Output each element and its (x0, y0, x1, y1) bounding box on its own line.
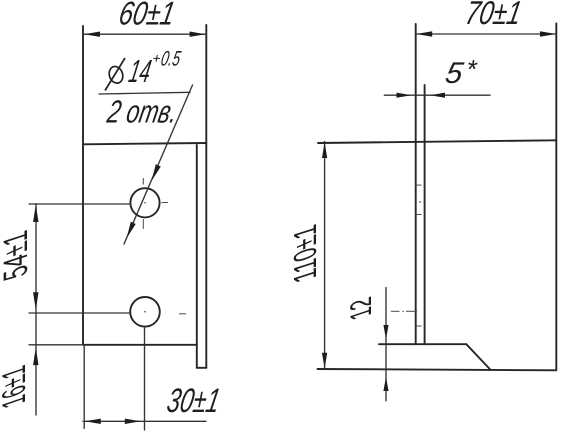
centerline dash-dot lower hole side view (391, 310, 400, 312)
side view wall right edge (424, 85, 426, 344)
dim line 110 (324, 142, 326, 370)
bend line (front view) (83, 143, 206, 144)
svg-text:110±1: 110±1 (288, 219, 323, 290)
leader shelf (99, 92, 190, 94)
extension plate left edge down (83, 345, 85, 429)
hidden hole tick upper-bottom on wall (415, 214, 422, 216)
centerline dash above upper hole (142, 178, 144, 185)
plate right edge (front view) (205, 25, 207, 368)
svg-text:60±1: 60±1 (116, 0, 178, 32)
hole center dot upper (144, 202, 146, 204)
svg-text:30±1: 30±1 (164, 382, 223, 420)
arrow 12 bottom (383, 377, 388, 391)
svg-text:12: 12 (344, 291, 377, 326)
arrow 70 right (540, 31, 556, 36)
dim line 54/16 vertical (35, 204, 37, 415)
arrow 16 bottom (33, 347, 38, 365)
extension of plate bottom to left (29, 344, 83, 346)
arrow 110 top (322, 142, 327, 158)
dim line 12 (385, 288, 387, 401)
leader line (124, 85, 193, 244)
arrow 60 right (190, 32, 206, 37)
arrow 5 right (430, 93, 445, 98)
svg-text:16±1: 16±1 (0, 360, 33, 415)
extension line lower hole center (29, 312, 130, 314)
svg-text:54±1: 54±1 (0, 225, 35, 288)
dim line 60 (83, 33, 206, 35)
diameter symbol (105, 58, 125, 91)
centerline dot upper hole side view (419, 201, 421, 203)
side view right edge (555, 24, 557, 370)
centerline dash right of upper hole (162, 202, 169, 204)
side view chamfer (466, 344, 490, 370)
arrow 54 bottom (33, 292, 38, 310)
arrow 54 top (33, 204, 38, 222)
arrow 30 left (85, 419, 101, 424)
flange inner edge (front view) (196, 145, 198, 368)
leader arrowhead lower (127, 222, 136, 239)
arrow 110 bottom (322, 353, 327, 369)
svg-text:2 отв.: 2 отв. (104, 94, 181, 130)
svg-text:14: 14 (126, 53, 154, 89)
hole center dot lower (144, 311, 146, 313)
plate bottom edge (front view) (83, 344, 197, 346)
centerline dash right of lower hole (179, 313, 186, 315)
svg-text:0.5: 0.5 (159, 48, 183, 71)
arrow 5 left (397, 93, 412, 98)
side view bottom edge (318, 369, 557, 370)
side view wall left edge (415, 24, 417, 344)
plate left edge (front view) (82, 26, 84, 345)
arrow 12 top (383, 325, 388, 339)
hidden hole tick lower-bottom on wall (415, 325, 422, 327)
dim line 70 (416, 33, 557, 35)
hole upper (130, 188, 159, 217)
svg-text:70±1: 70±1 (462, 0, 524, 32)
arrow 30 right (125, 419, 141, 424)
leader arrowhead upper (152, 164, 161, 181)
arrow 70 left (416, 31, 432, 36)
hidden hole tick upper-top on wall (415, 184, 422, 186)
side view base top edge (379, 343, 466, 345)
extension hole centerline down (144, 327, 146, 430)
flange bottom cap (front view) (197, 367, 207, 369)
extension line upper hole center (29, 203, 131, 205)
side view top edge (318, 140, 556, 143)
centerline dash below upper hole (142, 219, 144, 229)
dim line 5 (384, 94, 490, 96)
svg-text:5: 5 (443, 57, 466, 90)
arrow 60 left (84, 32, 100, 37)
hole lower (130, 297, 160, 327)
dim line 30 (83, 420, 206, 422)
